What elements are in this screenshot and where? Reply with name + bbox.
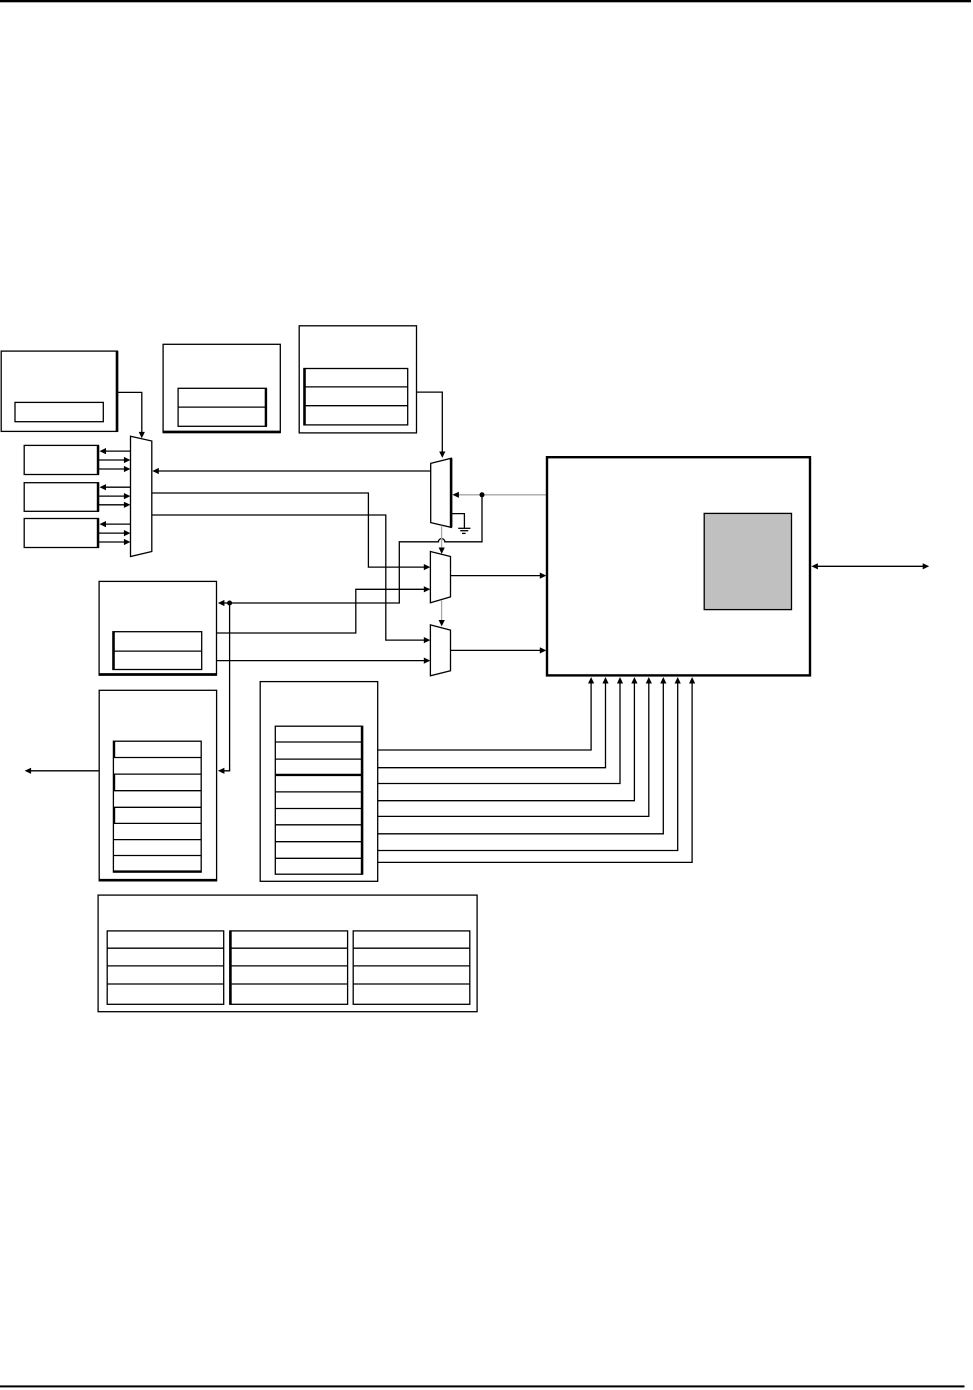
wire M1 to M0 (long feedback): [152, 468, 430, 474]
wire reg row 2 to CPU: [378, 677, 609, 768]
wire reg row 3 to CPU: [378, 677, 623, 784]
register field R1 rows: [275, 726, 362, 874]
wire reg row 5 to CPU: [378, 677, 652, 816]
mux M0 (left selector): [131, 436, 152, 556]
wire DCO to M2 lower input: [217, 586, 431, 633]
wire reg row 1 to CPU: [378, 677, 595, 750]
wire M0 out to mux M2 upper input: [152, 493, 431, 570]
block O1 (left small box 1): [24, 445, 98, 474]
wire J2 down to tall block: [218, 603, 230, 774]
wire C to mux M1: [417, 392, 446, 458]
block R1 (register file block): [260, 682, 378, 882]
mux M1 (oscillator selector): [431, 458, 452, 527]
register field P1a (4 rows): [107, 931, 224, 1004]
register field B1 (2 rows): [178, 388, 266, 426]
wire M2 to M3 (gray link): [439, 601, 445, 627]
block C (top-right register block): [299, 326, 416, 433]
mux M2: [430, 552, 450, 603]
register field P1c (4 rows): [353, 931, 470, 1004]
block O3 (left small box 3): [24, 519, 98, 548]
register field P1b (4 rows): [230, 931, 348, 1004]
block O2 (left small box 2): [24, 483, 98, 512]
wire O1 to M0 (a): [99, 457, 131, 463]
block T1 (tall left block): [99, 690, 216, 881]
wire M0 to O3: [100, 521, 131, 527]
wire reg row 8 to CPU: [378, 677, 696, 862]
wire DCO to M3 lower input: [217, 658, 431, 664]
wire reg row 6 to CPU: [378, 677, 667, 834]
wire M1 to M2 (gray link): [439, 526, 445, 554]
block core (gray): [704, 513, 791, 609]
register field DCO1 (2 rows): [113, 632, 202, 670]
block P1 (bottom wide block): [98, 895, 477, 1012]
wire J1 to DCO block (with hop): [218, 495, 482, 606]
wire CPU to M1 select (gray): [459, 494, 548, 496]
wire M0 to O1: [100, 448, 131, 454]
wire M2 to CPU block: [451, 573, 547, 579]
wire CPU bus (double arrow): [811, 563, 929, 569]
wire M0 out to mux M3 upper input: [152, 515, 431, 643]
wire M0 to O2: [100, 484, 131, 490]
footer rule: [0, 1385, 965, 1387]
register field C1 (3 rows): [304, 369, 408, 425]
wire M3 to CPU block: [451, 647, 547, 653]
wire A to mux M0: [118, 392, 145, 438]
wire reg row 4 to CPU: [378, 677, 638, 801]
block CPU (large): [547, 457, 810, 675]
wire T1 out to left: [25, 768, 100, 774]
wire O3 to M0 (b): [99, 539, 131, 545]
wire reg row 7 to CPU: [378, 677, 681, 851]
wire O1 to M0 (b): [99, 466, 131, 472]
block A (top-left register block): [1, 351, 117, 432]
wire O3 to M0 (a): [99, 530, 131, 536]
wire O2 to M0 (b): [99, 502, 131, 508]
register field T1 rows: [113, 741, 201, 872]
ground: [451, 514, 470, 534]
block DCO: [99, 581, 216, 675]
register field A1: [15, 402, 103, 421]
block B (top-middle register block): [163, 344, 280, 432]
mux M3: [430, 625, 450, 676]
node J2 (junction dot): [227, 601, 232, 606]
node J1 (junction dot): [480, 492, 485, 497]
wire O2 to M0 (a): [99, 493, 131, 499]
arrowhead into M1 right edge: [452, 492, 459, 498]
header rule: [0, 0, 971, 2]
